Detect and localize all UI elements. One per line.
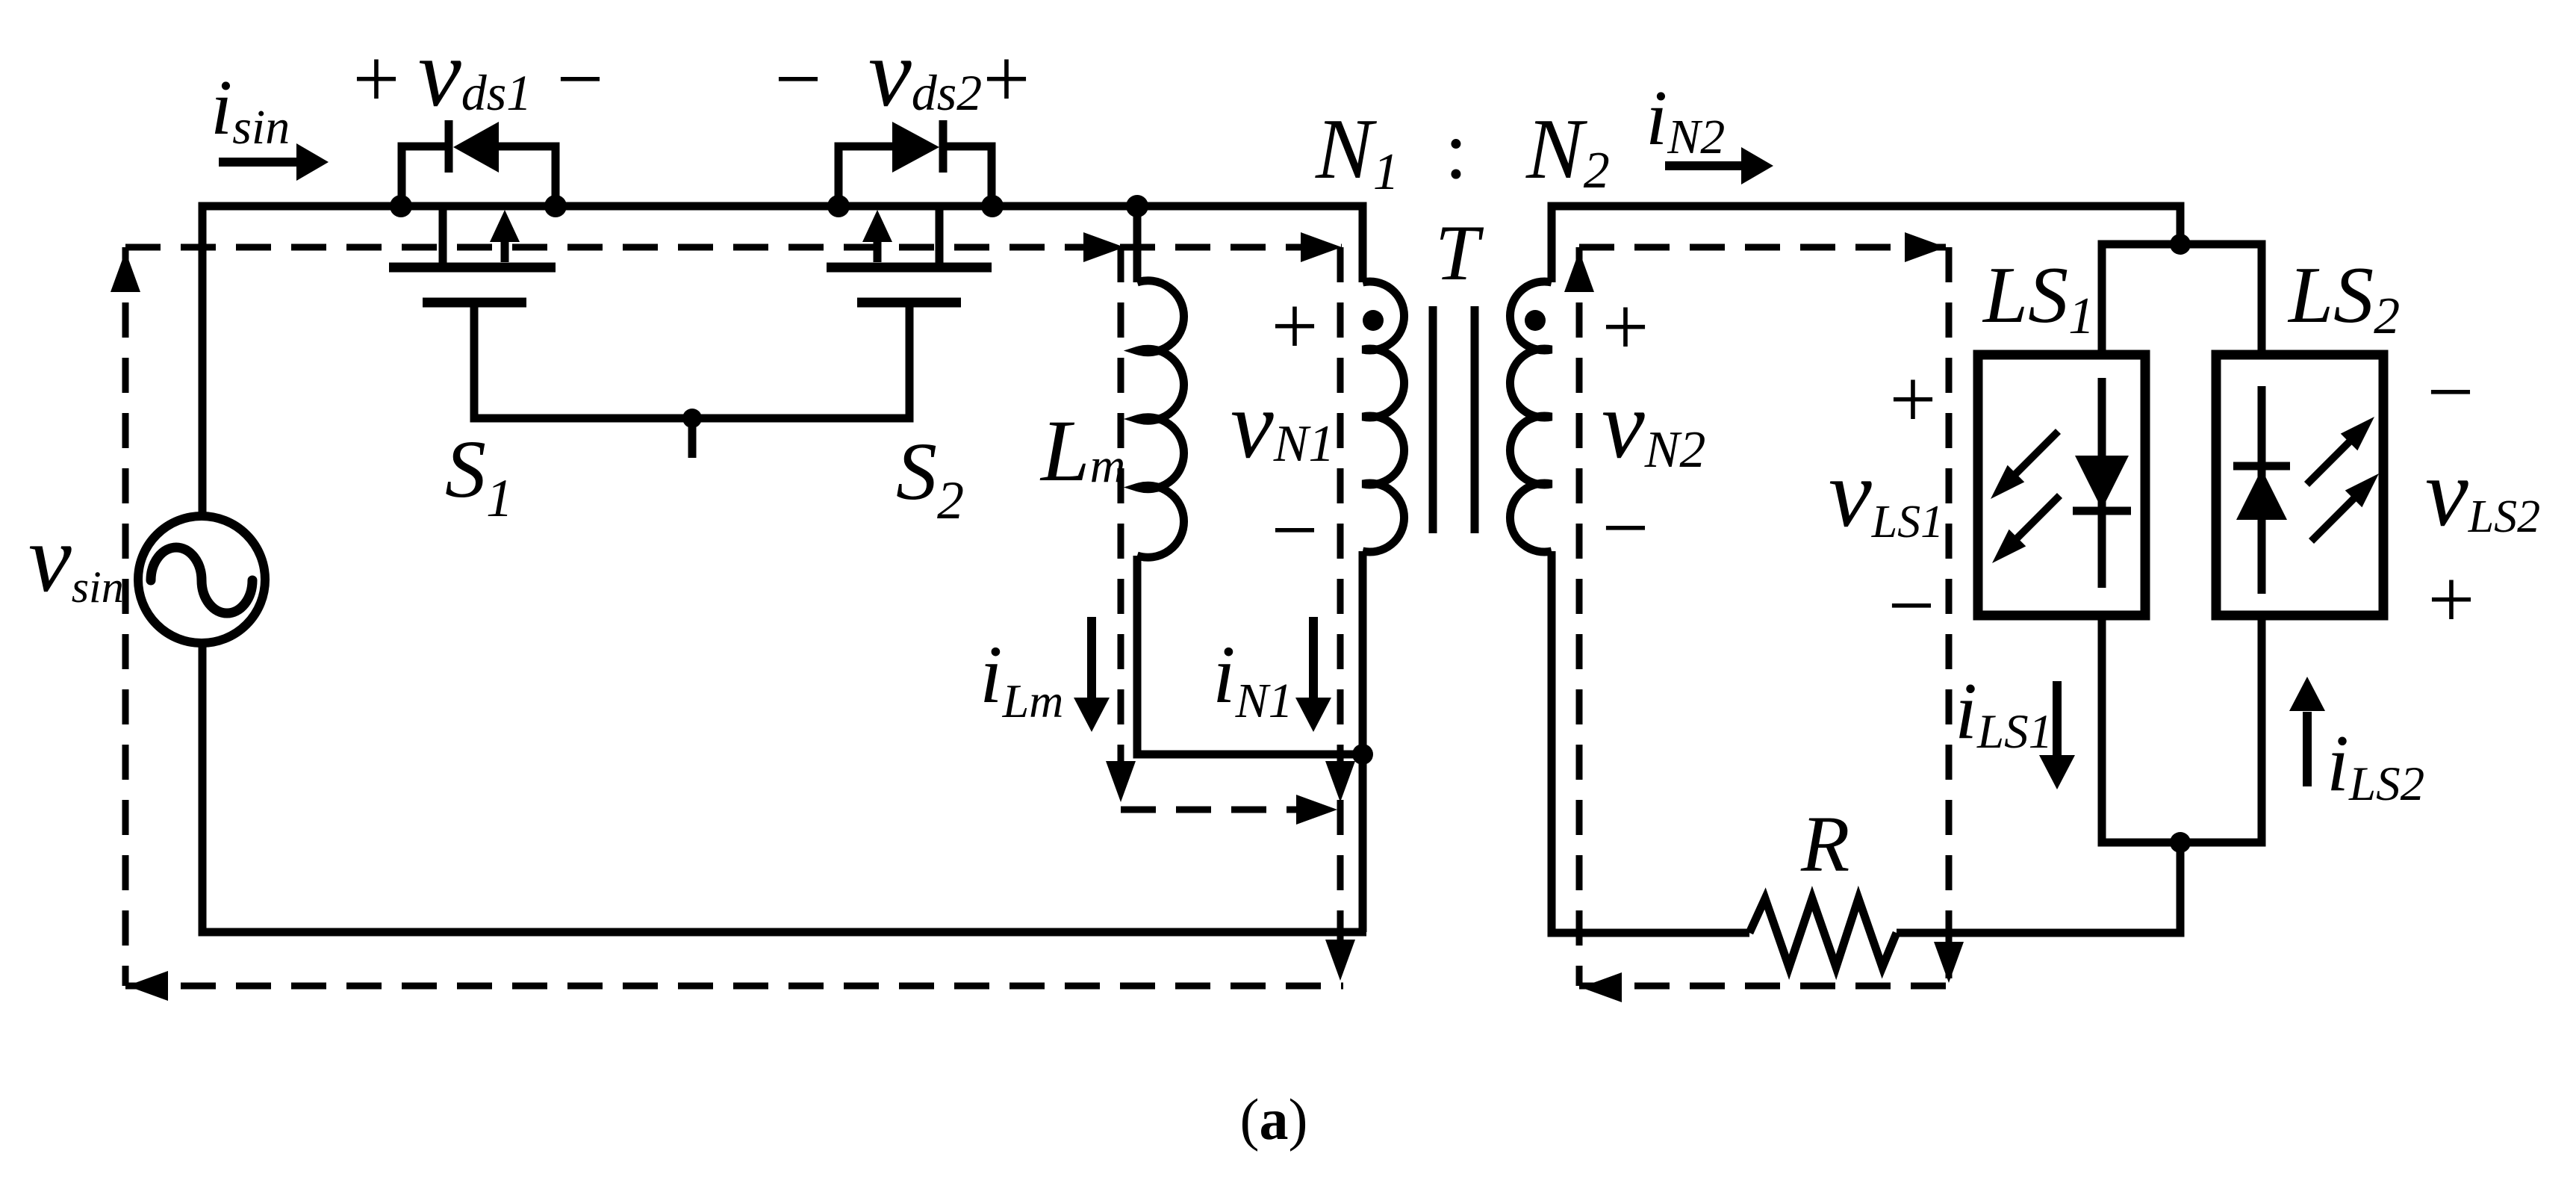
dashed loop i_N2 bottom horizontal [1579,983,1951,990]
svg-text:−: − [1602,482,1649,574]
node LS bottom [2170,832,2191,853]
transistor S2 [827,120,992,302]
dashed arrowhead down secondary right [1934,942,1964,983]
dashed arrowhead left bottom loop [127,971,168,1001]
S2 source arrowhead [862,210,892,242]
S2 drain lead [936,206,944,263]
dashed loop i_Lm vertical [1118,247,1124,790]
dashed arrowhead down i_N1 mid [1325,761,1355,802]
S2 body diode cathode bar [939,120,948,173]
svg-text:−: − [556,33,603,125]
svg-text:−: − [1888,559,1935,652]
node gate drive [682,409,702,428]
S2 source arrow shaft [874,242,882,262]
S1 source arrow shaft [501,242,509,262]
svg-text:+: + [983,33,1030,125]
svg-text:T: T [1435,209,1484,297]
svg-text::: : [1445,105,1468,196]
dashed arrowhead right before Lm [1083,232,1124,262]
dashed loop i_N2 left vertical [1576,247,1583,986]
node S1 left [390,195,412,217]
transistor S1 [389,120,556,302]
wire primary winding bottom lead [1359,551,1367,932]
wire LS bottom connector [2102,615,2262,842]
current arrow i_Lm [1074,617,1110,732]
S1 gate plate [423,298,526,308]
svg-text:+: + [2427,553,2474,646]
wire left vertical lower and bottom wire primary [202,646,1366,932]
dashed arrowhead left secondary bottom [1581,972,1622,1002]
svg-text:−: − [1271,484,1318,577]
node dots [390,195,2191,853]
dashed loop i_sin bottom horizontal [125,983,1343,990]
S1 body diode cathode bar [445,120,453,173]
S2 body diode triangle [892,122,939,173]
wire gate drive stub [688,418,697,458]
dashed loop i_sin top horizontal [125,244,1342,251]
node S2 left [827,195,850,217]
svg-text:R: R [1800,801,1849,889]
node S2 right [981,195,1004,217]
S1 drain lead [439,206,447,263]
LS2 diode [2233,386,2290,594]
svg-text:+: + [1271,280,1318,373]
dashed arrowhead down i_N1 bottom [1325,940,1355,981]
LS1 light arrows [1982,423,2068,571]
dashed arrowhead up secondary loop [1564,251,1594,292]
LS1 diode [2073,378,2131,588]
wire S1 S2 gate bottom [474,302,909,418]
svg-text:−: − [2427,346,2474,438]
transformer polarity dot secondary [1525,310,1546,331]
transformer primary winding N1 [1363,282,1404,552]
dashed arrowhead right end of top dashed [1301,232,1342,262]
AC source v_sin [138,516,265,643]
S1 body diode triangle [453,122,499,173]
S1 source arrowhead [490,210,520,242]
node LS top [2170,234,2191,255]
transformer secondary winding N2 [1510,282,1552,552]
node Lm bottom [1352,744,1373,765]
current arrow i_LS2 [2289,677,2325,786]
dashed arrowhead up left loop [111,251,140,292]
current arrow i_N2 [1665,147,1773,184]
node Lm tap [1126,195,1148,217]
S2 body diode bracket wires [839,146,892,206]
transformer core lines [1433,306,1475,533]
dashed loop i_Lm bottom horizontal [1121,807,1320,813]
wire Lm bottom lead and connector [1137,556,1363,754]
wire left vertical and top wire primary [202,206,1363,513]
transformer polarity dot primary [1363,310,1384,331]
dashed arrowhead right secondary top [1905,232,1946,262]
inductor Lm coil [1137,281,1184,558]
resistor R [1749,898,1897,967]
current arrow i_sin [219,143,329,181]
node S1 right [544,195,567,217]
dashed loop i_N2 right vertical [1946,247,1953,978]
svg-text:+: + [352,33,399,125]
LED string box LS2 [2216,355,2383,615]
svg-text:−: − [774,33,821,125]
dashed loop i_N1 vertical [1337,247,1344,971]
wire secondary bottom with riser [1552,551,1749,933]
S2 gate plate [857,298,961,308]
current arrow i_N1 [1295,617,1331,732]
S1 channel bar [389,263,556,273]
wire Lm top lead [1133,206,1142,282]
dashed loop i_sin left vertical [122,247,129,986]
S2 channel bar [827,263,992,273]
LS2 light arrows [2298,409,2387,550]
wire LS top connector [2102,244,2262,355]
S1 body diode bracket wires [402,146,445,206]
dashed arrowhead right i_Lm loop bottom [1296,795,1337,825]
current arrow i_LS1 [2039,681,2075,789]
svg-text:+: + [1889,353,1936,446]
svg-text:+: + [1602,281,1649,373]
wire secondary top [1552,206,2180,282]
svg-text:(a): (a) [1240,1087,1308,1152]
dashed loop i_N2 top horizontal [1579,244,1946,251]
secondary wires [1552,206,2262,967]
wire resistor to LS riser [1897,842,2180,933]
LED string box LS1 [1978,355,2145,615]
dashed arrowhead down i_Lm loop [1106,761,1136,802]
